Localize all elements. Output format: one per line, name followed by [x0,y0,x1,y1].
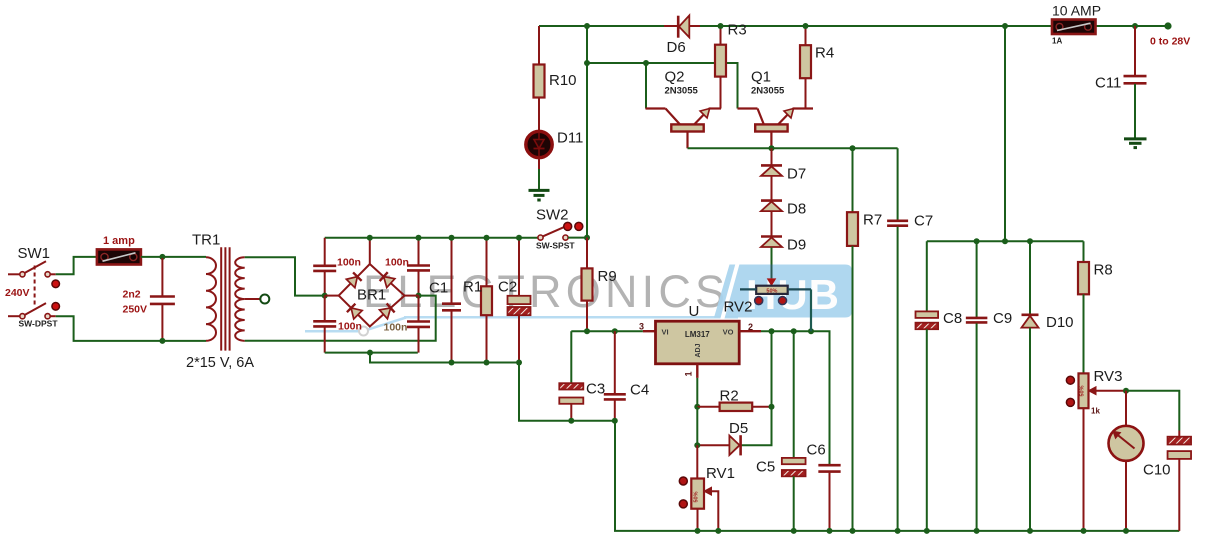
node C1 top [449,235,455,241]
label Q2 2N3055 [665,86,699,97]
diode D9 [761,237,782,248]
label C8 [943,310,962,327]
label D5 [729,420,748,437]
label pin 3 [639,322,644,332]
wire [325,237,540,239]
label R9 [598,268,617,285]
svg-text:2n2: 2n2 [123,289,141,301]
svg-text:C1: C1 [429,280,448,297]
pot RV2 [740,286,811,332]
svg-text:RV3: RV3 [1094,368,1123,385]
fuse 10 AMP [1052,20,1096,35]
node R9 bottom [584,328,590,334]
node C2 bottom [516,360,522,366]
label 10 AMP [1052,3,1101,19]
svg-text:D5: D5 [729,420,748,437]
wire [691,25,1053,27]
ground under C11 [1124,139,1147,148]
svg-text:D6: D6 [667,39,686,56]
svg-text:250V: 250V [123,304,148,316]
transformer TR1 center tap [245,295,270,304]
label 2n2 [123,289,141,301]
svg-text:3: 3 [639,322,644,332]
wire [324,272,326,296]
node R1 bottom [484,360,490,366]
svg-text:1: 1 [684,371,694,376]
diode BR1 lower-left [347,304,362,319]
label R1 [463,279,482,296]
pot RV3 [1066,373,1126,408]
wire [771,248,773,279]
label C9 [993,310,1012,327]
svg-text:RV1: RV1 [706,465,735,482]
label C6 [807,442,826,459]
wire to RV2 wiper [768,278,776,285]
wire [696,407,698,445]
node C7 bottom [895,528,901,534]
diode D5 [697,435,740,455]
node C6 bottom [827,528,833,534]
svg-text:C10: C10 [1143,462,1171,479]
svg-text:2*15 V, 6A: 2*15 V, 6A [186,355,254,371]
svg-text:LM317: LM317 [685,330,710,339]
svg-text:C2: C2 [498,279,517,296]
svg-text:R2: R2 [720,388,739,405]
svg-text:D8: D8 [787,201,806,218]
label BR1 [357,287,386,304]
wire [519,363,615,421]
svg-text:C5: C5 [756,459,775,476]
label RV3 [1094,368,1123,385]
node C5 bottom [791,528,797,534]
svg-text:R8: R8 [1094,262,1113,279]
label C3 [586,381,605,398]
diode D7 [761,165,782,176]
svg-text:R1: R1 [463,279,482,296]
label D6 [667,39,686,56]
wire [688,147,898,149]
capacitor C6 [818,465,840,531]
capacitor C4 [604,331,626,421]
label SW-DPST [19,319,59,329]
svg-text:R9: R9 [598,268,617,285]
svg-text:D7: D7 [787,166,806,183]
lm317 pin 3 stub [643,330,656,332]
label C2 [498,279,517,296]
label 2*15 V, 6A [186,355,254,371]
label C11 [1095,75,1121,92]
wire [324,327,326,352]
svg-text:SW-DPST: SW-DPST [19,319,59,329]
wire [418,238,420,265]
node R7 bottom [850,528,856,534]
bridge rectifier BR1 diamond [325,264,419,327]
transistor Q1 [738,109,814,149]
wire [586,26,588,238]
node RV3 bottom [1081,528,1087,534]
op-amp U LM317 body [656,321,740,364]
resistor R1 [481,238,492,363]
svg-text:100n: 100n [385,257,409,269]
svg-text:1 amp: 1 amp [103,235,135,247]
label R10 [549,72,577,89]
wire [771,176,773,200]
led D11 [526,131,552,157]
svg-text:50%: 50% [1080,385,1086,396]
node C1 bottom [449,360,455,366]
resistor R7 [847,148,858,531]
svg-text:TR1: TR1 [192,232,220,249]
transformer TR1 [206,247,245,350]
wire [56,257,97,274]
wire [587,63,738,109]
label U [689,303,700,320]
node C2 top [516,235,522,241]
label R4 [815,45,834,62]
capacitor C10 electrolytic [1168,431,1192,531]
node R2 right [769,404,775,410]
wire [325,352,418,354]
wire [245,257,325,295]
node C4 bottom [612,418,618,424]
svg-text:100n: 100n [338,321,362,333]
resistor R10 [534,26,545,132]
switch SW2 indicator dots [564,222,583,230]
label 1 amp [103,235,135,247]
wire [245,296,436,341]
capacitor 100n upper-right [407,266,430,271]
svg-text:0 to 28V: 0 to 28V [1150,36,1190,48]
label Q2 [665,69,685,86]
svg-text:C11: C11 [1095,75,1121,92]
switch SW2 [538,227,587,240]
resistor R2 [697,403,771,411]
label R7 [863,212,882,229]
diode BR1 upper-left [346,272,361,287]
wire [741,407,772,445]
node VO-C5 [791,328,797,334]
label 1k [1091,407,1100,416]
svg-text:C4: C4 [630,382,649,399]
node collector rail tap [584,60,590,66]
resistor R3 [715,26,726,109]
node SW2 right [584,235,590,241]
svg-text:1k: 1k [1091,407,1100,416]
node meter bottom [1123,528,1129,534]
svg-text:RV2: RV2 [724,299,753,316]
label C7 [914,213,933,230]
node bridge minus junction [367,350,373,356]
svg-text:VO: VO [723,328,734,337]
wire [761,331,830,464]
label D8 [787,201,806,218]
svg-text:50%: 50% [766,289,777,295]
svg-text:2N3055: 2N3055 [751,86,785,97]
svg-text:VI: VI [662,328,669,337]
switch SW1 terminal dot lower [52,303,60,311]
switch SW1 terminal dot upper [52,280,60,288]
node R7 top junction [850,145,856,151]
wire [538,169,540,190]
watermark pencil doodle [359,327,368,336]
node C4 top [612,328,618,334]
capacitor 100n upper-left [313,266,336,271]
node D10 bottom [1027,528,1033,534]
node Q1 base junction [769,145,775,151]
switch SW1 mechanical link [34,266,36,308]
svg-text:C7: C7 [914,213,933,230]
capacitor C5 electrolytic [782,331,806,531]
switch SW1 pole B [8,303,56,319]
label D11 [557,130,583,147]
wire [1083,408,1085,531]
wire [645,63,647,109]
label RV1 [706,465,735,482]
svg-text:C3: C3 [586,381,605,398]
node bridge AC1 [322,293,328,299]
node C3 bottom [568,418,574,424]
capacitor C1 [442,238,461,363]
label D9 [787,237,806,254]
node RV1 bottom [695,528,701,534]
wire [418,296,420,321]
node C11 tap [1132,23,1138,29]
capacitor C2 electrolytic [508,238,531,363]
wire [539,25,676,27]
svg-text:50%: 50% [694,491,700,502]
label SW1 [18,245,51,262]
wire [369,238,371,264]
label 240V [5,287,30,299]
wire [927,240,1084,242]
wire [615,421,1179,531]
capacitor C3 electrolytic [559,331,583,421]
wire [696,378,698,407]
ground under D11 [529,190,550,200]
node output vert bottom [1002,238,1008,244]
svg-text:D11: D11 [557,130,583,147]
node R4 top [803,23,809,29]
node rail-C9 [974,238,980,244]
fuse 1 amp [97,249,141,264]
node cap right top [416,235,422,241]
label 100n UR [385,257,409,269]
label RV2 [724,299,753,316]
wire [1126,391,1179,431]
meter [1109,391,1144,531]
wire [141,256,206,258]
label R3 [728,22,747,39]
wire [56,316,206,341]
node fuse-cap junction [159,254,165,260]
node cap-bottom junction [159,338,165,344]
label 100n LR [384,322,408,334]
svg-text:C9: C9 [993,310,1012,327]
capacitor 100n lower-left [313,321,336,326]
diode BR1 upper-right [380,272,395,287]
node VO-RV2 [808,328,814,334]
node R1 top [484,235,490,241]
node rail-D10 [1027,238,1033,244]
svg-text:SW1: SW1 [18,245,51,262]
resistor R9 [582,238,593,332]
label C4 [630,382,649,399]
node C9 bottom [974,528,980,534]
node output vert top [1002,23,1008,29]
svg-text:SW2: SW2 [536,207,569,224]
wire [1004,26,1006,241]
label D7 [787,166,806,183]
node VO-R2vert [769,328,775,334]
wire [696,445,698,478]
node bridge plus [367,235,373,241]
switch SW1 pole A [8,261,56,277]
svg-text:SW-SPST: SW-SPST [536,241,575,251]
wire [771,148,773,165]
lm317 pin 1 stub [696,364,698,378]
svg-text:C6: C6 [807,442,826,459]
resistor R8 [1078,241,1089,373]
label 1A [1052,37,1062,46]
wire [324,238,326,265]
svg-text:100n: 100n [337,257,361,269]
diode BR1 lower-right [379,303,394,318]
label SW-SPST [536,241,575,251]
label C10 [1143,462,1171,479]
capacitor C11 [1124,26,1147,139]
svg-text:D9: D9 [787,237,806,254]
node top rail tap [584,23,590,29]
label C1 [429,280,448,297]
watermark gray text ELECTRONICS [363,266,729,317]
wire [771,331,773,407]
node RV1 wiper bottom [715,528,721,534]
node Q2 collector tap [643,60,649,66]
wire [418,271,420,295]
wire [1096,25,1169,27]
watermark cyan band [714,262,852,320]
node D5 left [694,442,700,448]
svg-text:2N3055: 2N3055 [665,86,699,97]
wire [771,212,773,237]
svg-text:R3: R3 [728,22,747,39]
label R2 [720,388,739,405]
svg-text:D10: D10 [1046,314,1074,331]
resistor R4 [800,26,811,109]
watermark cyan underline [305,317,738,331]
lm317 pin 2 stub [739,330,761,332]
diode D6 [664,15,700,37]
transistor Q2 [646,109,722,149]
svg-text:R7: R7 [863,212,882,229]
wire [418,328,420,353]
wire [370,353,519,363]
label 0 to 28V [1150,36,1190,48]
capacitor 2n2 [150,258,175,341]
label 100n UL [337,257,361,269]
capacitor C8 electrolytic [916,241,939,531]
node output terminal [1164,22,1171,29]
label C5 [756,459,775,476]
svg-text:Q1: Q1 [751,69,771,86]
svg-text:2: 2 [748,322,753,332]
svg-text:240V: 240V [5,287,30,299]
wire [324,296,326,321]
capacitor 100n lower-right [407,322,430,327]
label 100n LL [338,321,362,333]
node meter top [1123,388,1129,394]
label SW2 [536,207,569,224]
label Q1 2N3055 [751,86,785,97]
svg-text:100n: 100n [384,322,408,334]
svg-text:BR1: BR1 [357,287,386,304]
svg-text:C8: C8 [943,310,962,327]
pot RV1 [679,477,718,531]
label D10 [1046,314,1074,331]
node C8 bottom [924,528,930,534]
label TR1 [192,232,220,249]
capacitor C7 [887,148,908,531]
svg-text:ADJ: ADJ [695,343,702,357]
svg-text:R10: R10 [549,72,577,89]
node R3 top [718,23,724,29]
node bridge AC2 [416,293,422,299]
svg-text:1A: 1A [1052,37,1062,46]
label pin 1 [684,371,694,376]
diode D10 [1022,241,1039,531]
capacitor C9 [966,241,988,531]
diode D8 [761,201,782,212]
svg-text:10 AMP: 10 AMP [1052,3,1101,19]
label pin 2 [748,322,753,332]
wire [538,158,540,169]
label Q1 [751,69,771,86]
label R8 [1094,262,1113,279]
label 250V [123,304,148,316]
svg-text:R4: R4 [815,45,834,62]
watermark white text HUB [746,271,840,318]
svg-text:U: U [689,303,700,320]
wire [571,330,643,332]
svg-text:Q2: Q2 [665,69,685,86]
node R2 left [694,404,700,410]
